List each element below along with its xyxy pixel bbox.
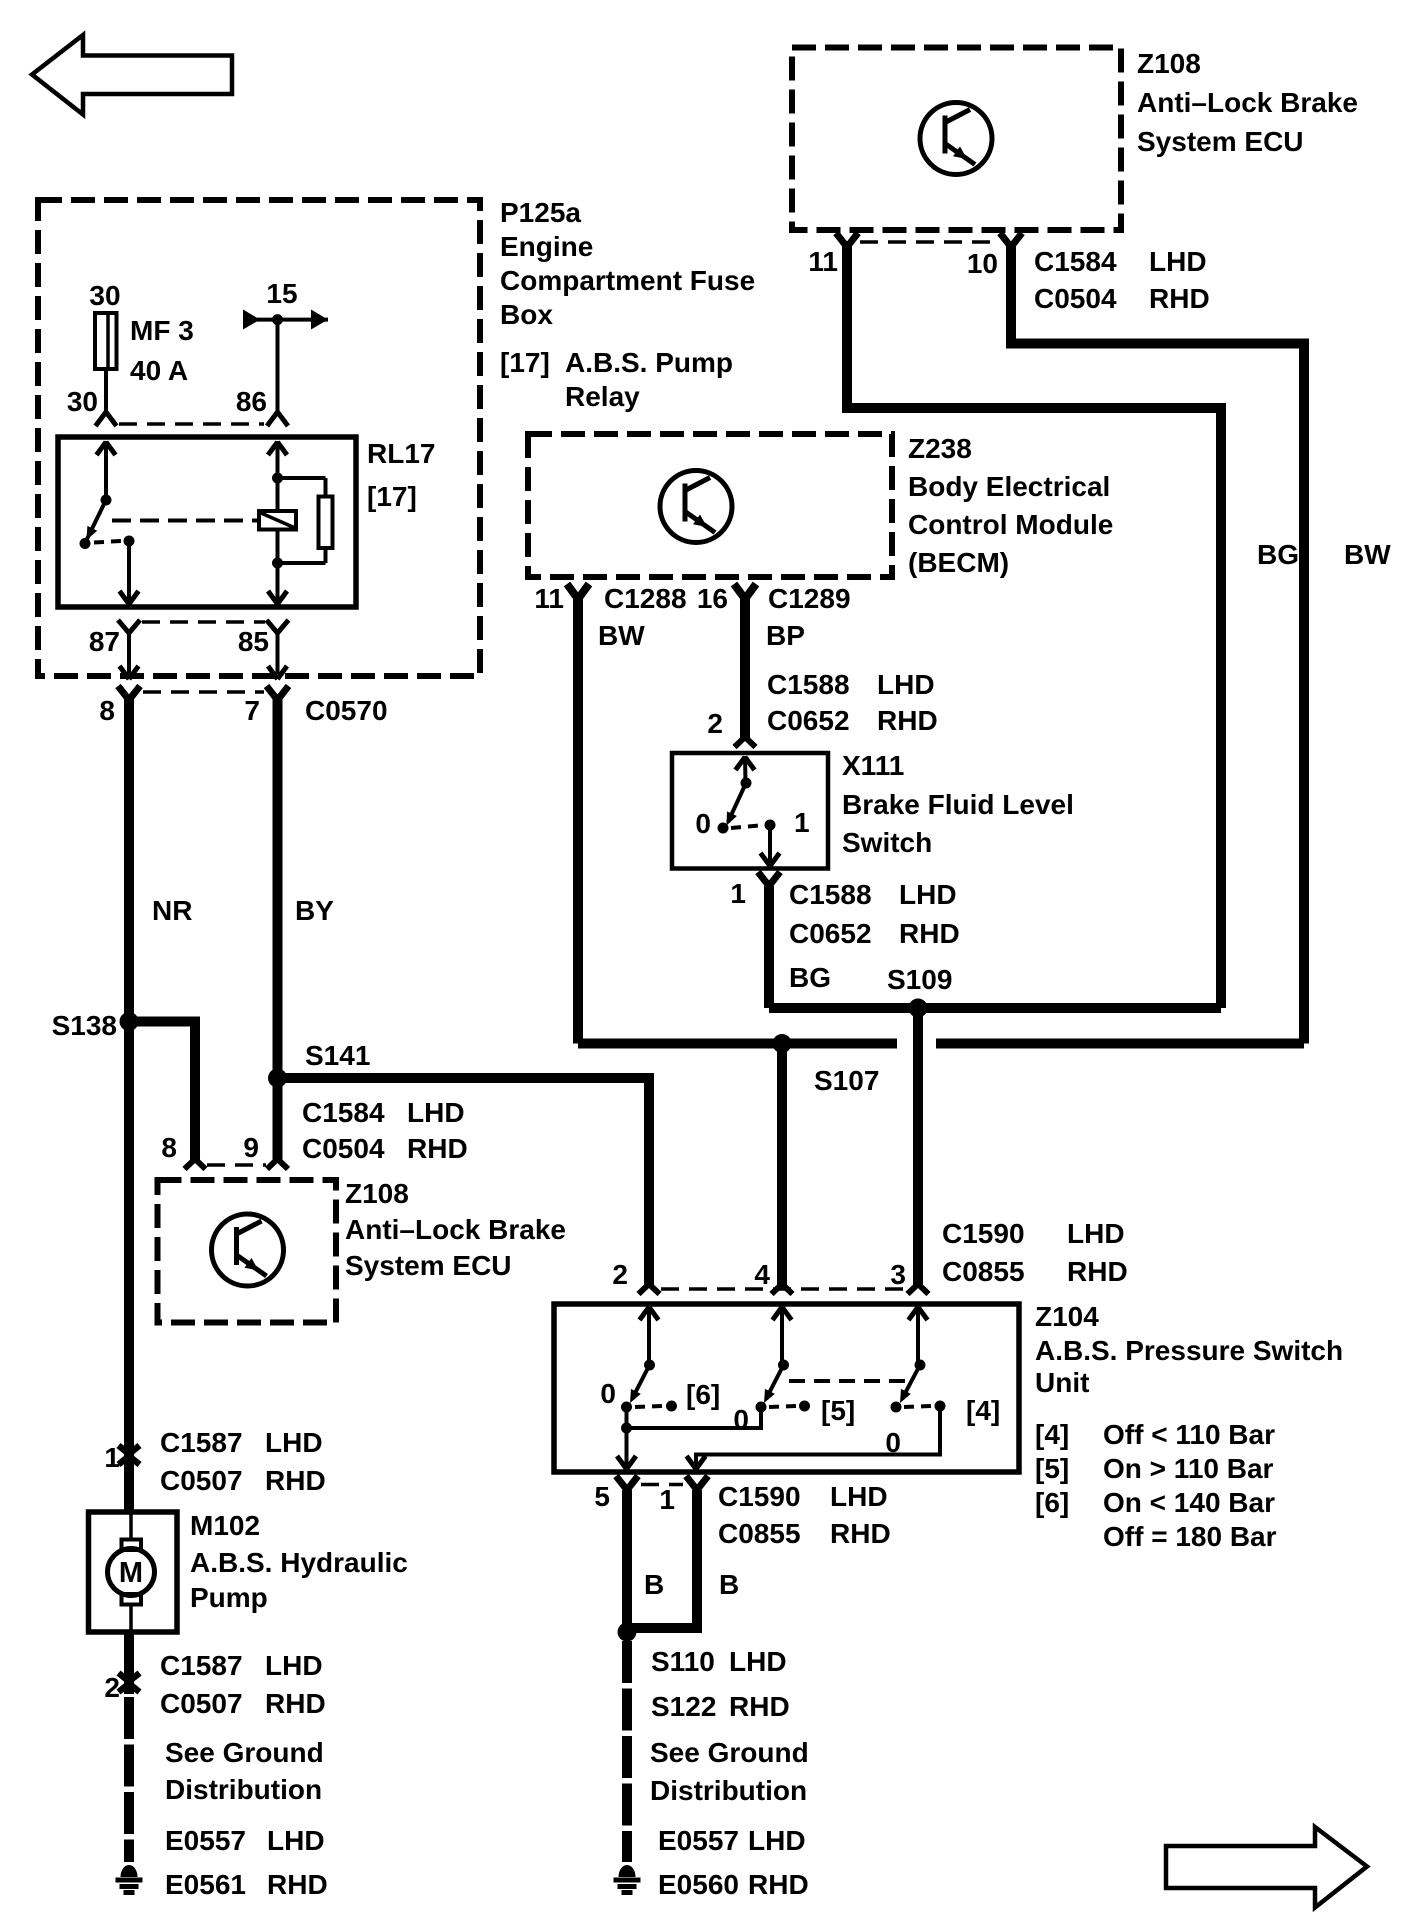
connector pin 86 male end	[267, 412, 288, 426]
svg-text:RHD: RHD	[1149, 283, 1210, 314]
Z104 sw2 entry wire	[780, 1307, 784, 1365]
label C0652 RHD (X111 bottom)	[789, 918, 960, 949]
relay coil bottom node	[272, 558, 283, 569]
svg-text:B: B	[719, 1569, 739, 1600]
svg-text:Brake Fluid Level: Brake Fluid Level	[842, 789, 1074, 820]
svg-text:Control Module: Control Module	[908, 509, 1113, 540]
svg-text:RHD: RHD	[265, 1465, 326, 1496]
label C1584 LHD (left)	[302, 1097, 465, 1128]
label E0557 LHD (right)	[658, 1825, 806, 1856]
svg-text:See Ground: See Ground	[650, 1737, 809, 1768]
X111 open contact	[718, 823, 729, 834]
node S109	[909, 999, 928, 1018]
Z104 pin 1 exit arrow	[687, 1456, 706, 1469]
svg-text:[17]: [17]	[500, 347, 550, 378]
label See Ground Distribution (right)	[650, 1737, 809, 1806]
relay wire contact to pin 87	[127, 541, 131, 607]
svg-text:NR: NR	[152, 895, 192, 926]
svg-text:1: 1	[659, 1484, 675, 1515]
wire 85 to box edge	[276, 633, 280, 674]
power feed 15 bus symbol	[243, 310, 328, 330]
relay pin 30 entry arrow	[97, 442, 116, 455]
wire BW (Z108 pin 10 to S107 bus)	[1011, 246, 1304, 1044]
wire B (pin 5 down)	[622, 1490, 632, 1632]
relay closed contact	[124, 536, 135, 547]
node S138	[120, 1012, 139, 1031]
wire fuse to connector 30	[104, 369, 108, 413]
svg-text:LHD: LHD	[1149, 246, 1207, 277]
fuse box P125a dashed enclosure	[38, 200, 480, 676]
label P125a Engine Compartment Fuse Box	[500, 197, 755, 330]
svg-text:87: 87	[89, 626, 120, 657]
Z104 sw1 common contact	[621, 1402, 632, 1413]
label [17] A.B.S. Pump Relay	[500, 347, 733, 412]
svg-text:C1584: C1584	[1034, 246, 1117, 277]
svg-text:Box: Box	[500, 299, 553, 330]
svg-text:RHD: RHD	[877, 705, 938, 736]
label C0504 RHD (left)	[302, 1133, 468, 1164]
connector pin 16 female (Z238)	[734, 584, 756, 599]
relay coil top node	[272, 473, 283, 484]
svg-text:LHD: LHD	[267, 1825, 325, 1856]
svg-text:E0561: E0561	[165, 1869, 246, 1900]
svg-text:C0652: C0652	[767, 705, 850, 736]
label See Ground Distribution (left)	[165, 1737, 324, 1805]
connector C0570 pin 8 female	[118, 686, 140, 700]
connector C1584 pin 8 male end	[185, 1159, 206, 1169]
svg-text:LHD: LHD	[265, 1427, 323, 1458]
connector C1590 dashed line (top)	[661, 1287, 907, 1291]
ground distribution dashed wire (left)	[124, 1697, 134, 1862]
relay switch pivot	[101, 495, 112, 506]
svg-text:C1590: C1590	[718, 1481, 801, 1512]
svg-text:Off < 110 Bar: Off < 110 Bar	[1103, 1419, 1275, 1450]
svg-text:LHD: LHD	[265, 1650, 323, 1681]
svg-text:LHD: LHD	[748, 1825, 806, 1856]
Z104 sw3 entry arrow	[909, 1307, 928, 1320]
label C0855 RHD (Z104 top)	[942, 1256, 1128, 1287]
ECU icon Z238	[660, 471, 732, 543]
relay pin 87 exit arrow	[120, 591, 139, 604]
svg-text:11: 11	[534, 583, 564, 614]
svg-text:C0570: C0570	[305, 695, 388, 726]
svg-text:Z108: Z108	[345, 1178, 409, 1209]
page navigation arrow left	[32, 35, 232, 115]
svg-text:RL17: RL17	[367, 438, 435, 469]
svg-text:15: 15	[266, 278, 297, 309]
relay switch arm	[87, 500, 106, 539]
svg-text:MF 3: MF 3	[130, 315, 194, 346]
svg-text:LHD: LHD	[407, 1097, 465, 1128]
svg-text:LHD: LHD	[1067, 1218, 1125, 1249]
X111 exit arrow	[761, 853, 780, 866]
svg-text:0: 0	[600, 1378, 616, 1409]
svg-text:E0560: E0560	[658, 1869, 739, 1900]
connector C1584 dashed line	[207, 1163, 266, 1167]
svg-text:RHD: RHD	[1067, 1256, 1128, 1287]
svg-text:1: 1	[104, 1442, 120, 1473]
Z104 sw3 contact [4]	[935, 1401, 946, 1412]
Z104 junction sw1-sw2	[621, 1423, 632, 1434]
X111 wire entry to pivot	[743, 756, 748, 783]
Z104 pin 5 exit arrow	[617, 1456, 636, 1469]
pump M102 box	[89, 1512, 178, 1632]
svg-text:C1288: C1288	[604, 583, 687, 614]
connector dashed line 87-85	[142, 620, 265, 624]
svg-text:4: 4	[754, 1259, 770, 1290]
relay coil K1	[259, 511, 296, 530]
svg-text:S138: S138	[52, 1010, 117, 1041]
label E0561 RHD (left)	[165, 1869, 328, 1900]
svg-text:40 A: 40 A	[130, 355, 188, 386]
svg-text:8: 8	[99, 695, 115, 726]
svg-text:RHD: RHD	[748, 1869, 809, 1900]
svg-text:5: 5	[594, 1481, 610, 1512]
wire S109 bus	[769, 1003, 1221, 1013]
connector C1590 pin 2 male	[639, 1284, 660, 1294]
Z104 sw1 arm	[632, 1365, 650, 1399]
svg-text:10: 10	[967, 248, 998, 279]
svg-text:LHD: LHD	[729, 1646, 787, 1677]
svg-text:30: 30	[89, 280, 120, 311]
svg-text:(BECM): (BECM)	[908, 547, 1009, 578]
label C0507 RHD (lower)	[160, 1688, 326, 1719]
svg-text:B: B	[644, 1569, 664, 1600]
svg-text:0: 0	[695, 808, 711, 839]
wire S141 to Z104 pin 2	[278, 1078, 650, 1285]
svg-text:Z104: Z104	[1035, 1301, 1099, 1332]
wire NR (pin 8 to pump M102)	[124, 698, 134, 1512]
X111 wire contact to pin 1	[768, 825, 772, 866]
connector C1587 pin 2 crossing	[119, 1673, 140, 1692]
Z104 sw2 common link wire	[627, 1408, 762, 1428]
svg-text:86: 86	[236, 386, 267, 417]
relay pin 86 entry arrow	[268, 442, 287, 455]
Z104 sw2 travel dashed	[769, 1406, 796, 1407]
svg-text:11: 11	[808, 246, 838, 277]
Z104 mechanical link dashed	[789, 1379, 914, 1383]
label C1587 LHD (lower)	[160, 1650, 323, 1681]
node S141	[268, 1069, 287, 1088]
relay actuation dashed link	[112, 519, 259, 523]
svg-text:E0557: E0557	[165, 1825, 246, 1856]
connector C1590 pin 3 male	[908, 1284, 929, 1294]
svg-text:3: 3	[890, 1259, 906, 1290]
svg-text:System ECU: System ECU	[345, 1250, 512, 1281]
page navigation arrow right	[1166, 1827, 1367, 1908]
Z104 sw3 pivot	[915, 1360, 926, 1371]
svg-text:C0507: C0507	[160, 1688, 243, 1719]
connector C1590 dashed line (bottom)	[641, 1483, 683, 1487]
wire BP (Z238 pin 16 to X111)	[740, 596, 750, 738]
svg-text:C0652: C0652	[789, 918, 872, 949]
svg-text:S107: S107	[814, 1065, 879, 1096]
ECU icon Z108 (top)	[920, 103, 992, 175]
label C1587 LHD (upper)	[160, 1427, 323, 1458]
svg-text:Z108: Z108	[1137, 48, 1201, 79]
svg-text:Distribution: Distribution	[650, 1775, 807, 1806]
svg-text:C1590: C1590	[942, 1218, 1025, 1249]
svg-text:C1587: C1587	[160, 1650, 243, 1681]
svg-text:Anti–Lock Brake: Anti–Lock Brake	[345, 1214, 566, 1245]
connector C1587 pin 1 crossing	[119, 1446, 140, 1465]
relay wire pin30 to pivot	[104, 441, 108, 500]
connector C1584 pin 9 male end	[267, 1159, 288, 1169]
svg-text:M102: M102	[190, 1510, 260, 1541]
Z104 sw2 pivot	[778, 1360, 789, 1371]
svg-text:[6]: [6]	[686, 1379, 720, 1410]
pressure switch Z104 box	[554, 1304, 1019, 1472]
fusebox exit arrow pin 7	[268, 666, 287, 679]
svg-text:On > 110 Bar: On > 110 Bar	[1103, 1453, 1274, 1484]
svg-text:C1588: C1588	[789, 879, 872, 910]
svg-text:X111: X111	[842, 750, 904, 781]
svg-text:System ECU: System ECU	[1137, 126, 1304, 157]
legend [4] Off < 110 Bar	[1035, 1419, 1275, 1450]
svg-text:Engine: Engine	[500, 231, 593, 262]
relay RL17 box	[58, 437, 356, 607]
svg-text:C0507: C0507	[160, 1465, 243, 1496]
wire BG (Z108 pin 11 to S109 bus)	[847, 246, 1221, 1008]
svg-text:Off = 180 Bar: Off = 180 Bar	[1103, 1521, 1277, 1552]
label E0557 LHD (left)	[165, 1825, 325, 1856]
svg-text:BG: BG	[789, 962, 831, 993]
ECU Z108 dashed box (top)	[792, 48, 1121, 231]
pump M102 motor symbol	[108, 1512, 155, 1632]
svg-text:1: 1	[730, 878, 746, 909]
svg-text:RHD: RHD	[899, 918, 960, 949]
svg-text:[6]: [6]	[1035, 1487, 1069, 1518]
connector 87 female	[118, 620, 140, 633]
svg-text:C1588: C1588	[767, 669, 850, 700]
connector pin 11 female (Z238)	[567, 584, 589, 599]
label C1590 LHD (bottom)	[718, 1481, 888, 1512]
wire BW (Z238 pin 11 to S107 bus)	[573, 596, 583, 1044]
label E0560 RHD (right)	[658, 1869, 809, 1900]
svg-text:BW: BW	[1344, 539, 1391, 570]
svg-text:2: 2	[104, 1672, 120, 1703]
svg-text:[4]: [4]	[966, 1395, 1000, 1426]
Z104 sw1 travel dashed	[635, 1406, 663, 1407]
wire S107 to Z104 pin 4	[777, 1044, 787, 1286]
wire S141 to connector pin 9	[273, 1078, 283, 1160]
svg-text:RHD: RHD	[265, 1688, 326, 1719]
X111 switch arm	[728, 783, 746, 822]
ground symbol E0557/E0561	[116, 1865, 143, 1892]
X111 travel dashed	[731, 826, 759, 829]
wire 15 bus to connector 86	[276, 320, 280, 413]
legend [5] On > 110 Bar	[1035, 1453, 1274, 1484]
wire S107 bus right segment	[936, 1039, 1304, 1049]
connector C1588 pin 1 female	[758, 872, 780, 886]
svg-text:S141: S141	[305, 1040, 370, 1071]
connector pin 11 female (Z108 top)	[836, 233, 858, 247]
svg-text:M: M	[119, 1557, 143, 1589]
fusebox exit arrow pin 8	[120, 666, 139, 679]
svg-text:Switch: Switch	[842, 827, 932, 858]
svg-text:E0557: E0557	[658, 1825, 739, 1856]
relay wire coil to pin 85	[276, 530, 280, 608]
connector pin 30 male end	[96, 412, 117, 426]
svg-text:LHD: LHD	[899, 879, 957, 910]
svg-text:BG: BG	[1257, 539, 1299, 570]
Z104 sw3 common contact	[891, 1402, 902, 1413]
Z104 sw1 pivot	[644, 1360, 655, 1371]
svg-text:C0855: C0855	[942, 1256, 1025, 1287]
wire X111 pin 1 to S109 bus	[764, 886, 774, 1008]
connector C1590 pin 4 male	[772, 1284, 793, 1294]
fuse MF 3 40 A	[95, 313, 117, 369]
svg-text:C0504: C0504	[302, 1133, 385, 1164]
connector C1588 pin 2 male end	[735, 737, 756, 747]
svg-text:[17]: [17]	[367, 481, 417, 512]
legend [6] On < 140 Bar	[1035, 1487, 1275, 1518]
svg-text:Pump: Pump	[190, 1582, 268, 1613]
svg-text:[5]: [5]	[1035, 1453, 1069, 1484]
svg-text:Z238: Z238	[908, 433, 972, 464]
svg-text:RHD: RHD	[407, 1133, 468, 1164]
svg-text:Compartment Fuse: Compartment Fuse	[500, 265, 755, 296]
Z104 sw3 output wire	[696, 1406, 940, 1469]
ECU Z108 dashed box (left)	[158, 1180, 337, 1323]
wire S107 bus left segment	[578, 1039, 897, 1049]
svg-text:16: 16	[697, 583, 728, 614]
label C0507 RHD (upper)	[160, 1465, 326, 1496]
wire S138 branch	[129, 1022, 195, 1161]
svg-text:A.B.S. Pressure Switch: A.B.S. Pressure Switch	[1035, 1335, 1343, 1366]
X111 switch pivot	[741, 778, 752, 789]
label C0504 RHD (top)	[1034, 283, 1210, 314]
Z104 sw2 common contact	[756, 1402, 767, 1413]
label C1588 LHD (X111 top)	[767, 669, 935, 700]
X111 closed contact	[765, 820, 776, 831]
relay wire pin86 to coil	[276, 441, 280, 511]
label C1584 LHD (top)	[1034, 246, 1207, 277]
svg-text:[4]: [4]	[1035, 1419, 1069, 1450]
svg-text:Distribution: Distribution	[165, 1774, 322, 1805]
label C0855 RHD (bottom)	[718, 1518, 891, 1549]
connector C1590 pin 1 female	[686, 1476, 708, 1490]
svg-text:Anti–Lock Brake: Anti–Lock Brake	[1137, 87, 1358, 118]
relay pin 85 exit arrow	[268, 591, 287, 604]
svg-text:On < 140 Bar: On < 140 Bar	[1103, 1487, 1275, 1518]
connector 85 female	[267, 620, 289, 633]
svg-text:S122: S122	[651, 1691, 716, 1722]
wire 87 to box edge	[127, 633, 131, 674]
connector C1590 pin 5 female	[616, 1476, 638, 1490]
label S122 RHD	[651, 1691, 790, 1722]
connector C1584 dashed line (top)	[860, 240, 999, 244]
label C1588 LHD (X111 bottom)	[789, 879, 957, 910]
Z104 sw1 output wire	[625, 1407, 629, 1469]
Z104 sw3 travel dashed	[904, 1406, 931, 1407]
svg-text:[5]: [5]	[821, 1395, 855, 1426]
Z104 sw3 arm	[902, 1365, 920, 1399]
wire M102 to ground connector	[124, 1632, 134, 1694]
ground symbol E0557/E0560	[614, 1865, 641, 1893]
svg-text:BY: BY	[295, 895, 334, 926]
svg-text:9: 9	[243, 1132, 259, 1163]
connector C0570 dashed line	[143, 690, 264, 694]
svg-text:Relay: Relay	[565, 381, 640, 412]
label C1590 LHD (Z104 top)	[942, 1218, 1125, 1249]
svg-text:LHD: LHD	[830, 1481, 888, 1512]
svg-text:See Ground: See Ground	[165, 1737, 324, 1768]
svg-text:7: 7	[244, 695, 260, 726]
node S110	[618, 1623, 637, 1642]
svg-text:BP: BP	[766, 620, 805, 651]
svg-text:8: 8	[161, 1132, 177, 1163]
svg-text:C0855: C0855	[718, 1518, 801, 1549]
Z104 sw3 entry wire	[916, 1307, 920, 1365]
svg-text:RHD: RHD	[729, 1691, 790, 1722]
svg-text:30: 30	[67, 386, 98, 417]
Z104 sw1 entry arrow	[640, 1307, 659, 1320]
node S107	[773, 1034, 792, 1053]
label C0652 RHD (X111 top)	[767, 705, 938, 736]
svg-text:0: 0	[733, 1404, 749, 1435]
svg-text:RHD: RHD	[830, 1518, 891, 1549]
svg-text:2: 2	[707, 708, 723, 739]
Z104 sw2 arm	[766, 1365, 784, 1399]
wire B (pin 1 down)	[632, 1490, 697, 1628]
svg-text:C1289: C1289	[768, 583, 851, 614]
wire S109 to Z104 pin 3	[913, 1008, 923, 1285]
svg-text:Body Electrical: Body Electrical	[908, 471, 1110, 502]
Z104 sw2 entry arrow	[773, 1307, 792, 1320]
svg-text:A.B.S. Hydraulic: A.B.S. Hydraulic	[190, 1547, 408, 1578]
connector dashed line 30-86	[119, 422, 264, 426]
svg-text:C0504: C0504	[1034, 283, 1117, 314]
relay contact travel dashed	[94, 541, 121, 543]
Z104 sw1 entry wire	[647, 1307, 651, 1365]
svg-text:RHD: RHD	[267, 1869, 328, 1900]
svg-text:S110: S110	[651, 1646, 715, 1677]
ECU icon Z108 (left)	[212, 1214, 284, 1286]
Z104 sw2 contact [5]	[799, 1401, 810, 1412]
wire BY (pin 7 to S141)	[273, 698, 283, 1078]
switch X111 box	[672, 753, 828, 869]
label S110 LHD	[651, 1646, 787, 1677]
relay suppression resistor	[278, 478, 333, 563]
Z104 sw1 contact [6]	[666, 1401, 677, 1412]
svg-text:C1587: C1587	[160, 1427, 243, 1458]
svg-text:LHD: LHD	[877, 669, 935, 700]
ground distribution dashed wire (right)	[622, 1641, 632, 1862]
BECM Z238 dashed box	[528, 434, 892, 577]
svg-text:85: 85	[238, 626, 269, 657]
svg-text:2: 2	[612, 1259, 628, 1290]
svg-text:S109: S109	[887, 964, 952, 995]
X111 entry arrow	[736, 757, 755, 770]
svg-text:1: 1	[794, 807, 810, 838]
relay switch open contact	[80, 538, 91, 549]
svg-text:P125a: P125a	[500, 197, 581, 228]
connector pin 10 female (Z108 top)	[1000, 233, 1022, 247]
connector C0570 pin 7 female	[267, 686, 289, 700]
svg-text:C1584: C1584	[302, 1097, 385, 1128]
svg-text:A.B.S. Pump: A.B.S. Pump	[565, 347, 733, 378]
svg-text:Unit: Unit	[1035, 1367, 1089, 1398]
svg-text:BW: BW	[598, 620, 645, 651]
